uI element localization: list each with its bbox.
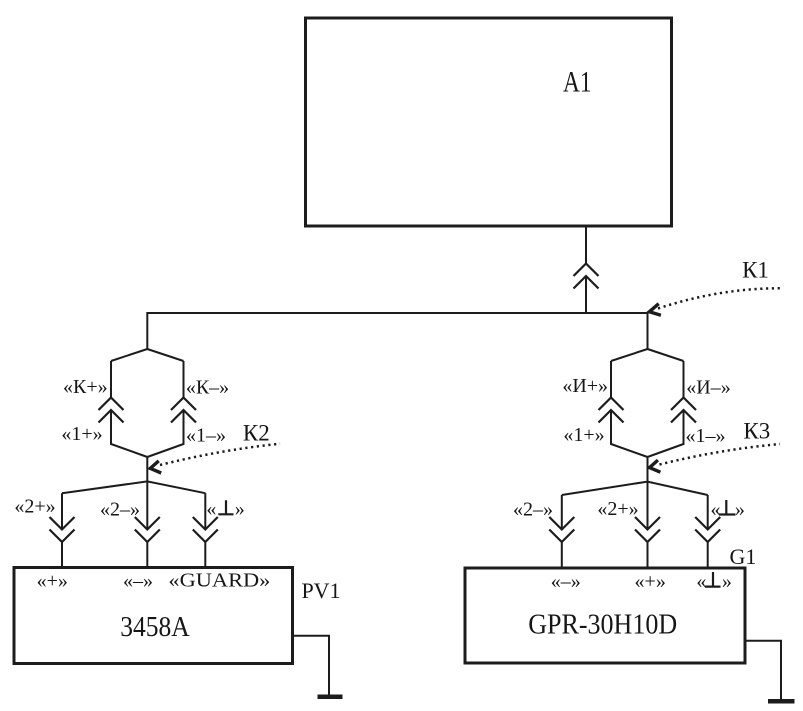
- svg-text:«+»: «+»: [37, 570, 68, 592]
- connector chevrons (cable K1 joint, upper half): [574, 264, 599, 277]
- connector chevrons right lens left side: [599, 398, 624, 423]
- wire left fan branch 3: [204, 493, 206, 529]
- svg-text:«GUARD»: «GUARD»: [168, 570, 270, 592]
- svg-text:«К–»: «К–»: [186, 377, 229, 399]
- wire left lens left upper segment: [110, 361, 112, 398]
- connector chevrons (cable K1 joint, lower half): [574, 276, 599, 289]
- svg-text:«2–»: «2–»: [513, 499, 553, 521]
- wire pin gnd to PV1: [204, 542, 206, 566]
- svg-text:«1–»: «1–»: [186, 425, 226, 447]
- label gnd right (tack symbol): [719, 500, 736, 515]
- instrument PV1 box (3458A): [14, 568, 293, 664]
- wire right fan branch 2: [647, 482, 649, 530]
- wire right lens right upper segment: [683, 361, 685, 398]
- connector chevrons left lens left side: [99, 398, 124, 423]
- connector chevrons branch 2- right: [549, 517, 574, 542]
- svg-text:«2+»: «2+»: [597, 498, 638, 520]
- connector chevrons branch 2+: [50, 517, 75, 542]
- wire left fan branch 1: [61, 493, 63, 529]
- wire right lens right lower segment: [648, 410, 684, 457]
- connector chevrons left lens right side: [171, 398, 196, 423]
- svg-text:«2+»: «2+»: [14, 496, 55, 518]
- wire PV1 to ground: [294, 636, 329, 695]
- wire right lens bottom stem: [647, 457, 649, 482]
- svg-text:«К+»: «К+»: [63, 376, 108, 398]
- svg-text:GPR-30H10D: GPR-30H10D: [528, 609, 677, 640]
- K1 pointer arrowhead: [649, 304, 661, 316]
- device A1 (box): [306, 18, 672, 226]
- svg-text:G1: G1: [730, 544, 757, 569]
- svg-text:«–»: «–»: [123, 570, 153, 592]
- K3 pointer dotted line: [660, 444, 781, 465]
- wire pin 2+ to PV1: [61, 542, 63, 566]
- wire G1 to ground: [747, 641, 782, 700]
- connector chevrons branch gnd: [193, 517, 218, 542]
- K2 pointer arrowhead: [150, 461, 161, 473]
- wire connector to bus: [585, 276, 587, 313]
- connector chevrons branch 2-: [135, 517, 160, 542]
- svg-text:«И–»: «И–»: [686, 377, 730, 399]
- connector chevrons right lens right side: [671, 398, 696, 423]
- svg-text:»: »: [235, 498, 245, 520]
- svg-text:PV1: PV1: [301, 578, 340, 603]
- svg-text:К2: К2: [243, 421, 270, 446]
- wire pin 2- to G1: [561, 542, 563, 567]
- wire left lens right lower segment: [147, 410, 183, 457]
- K1 pointer dotted line: [658, 288, 781, 308]
- svg-text:«: «: [711, 499, 721, 521]
- ground PV1: [318, 694, 343, 699]
- label gnd left (tack symbol): [218, 500, 233, 514]
- svg-text:К3: К3: [743, 419, 770, 444]
- wire right lens left lower segment: [611, 410, 648, 457]
- bus wire (horizontal with end drops): [147, 313, 647, 349]
- svg-text:«: «: [696, 570, 706, 592]
- svg-text:A1: A1: [563, 66, 592, 99]
- source G1 box (GPR-30H10D): [465, 568, 745, 663]
- wire left fan diagonals: [62, 481, 205, 493]
- wire left fan branch 2: [146, 481, 148, 529]
- svg-text:«1+»: «1+»: [61, 423, 102, 445]
- wire left lens right upper segment: [183, 361, 185, 398]
- svg-text:«: «: [206, 498, 216, 520]
- terminal label gnd right box (tack symbol): [705, 572, 721, 587]
- K2 pointer dotted line: [160, 444, 280, 465]
- wire left lens top diagonals: [111, 349, 184, 361]
- connector chevrons branch 2+ right: [635, 517, 660, 542]
- wire left lens bottom stem: [146, 457, 148, 481]
- svg-text:«2–»: «2–»: [100, 499, 140, 521]
- svg-text:«1+»: «1+»: [563, 424, 604, 446]
- svg-text:К1: К1: [742, 258, 769, 283]
- wire pin 2- to PV1: [146, 542, 148, 566]
- wire pin 2+ to G1: [647, 542, 649, 567]
- wire A1 bottom to connector K1: [585, 228, 587, 264]
- svg-text:»: »: [735, 499, 745, 521]
- wire right fan diagonals: [562, 482, 708, 495]
- wire right fan branch 3: [707, 495, 709, 530]
- wire pin gnd to G1: [707, 542, 709, 567]
- svg-text:«И+»: «И+»: [562, 375, 608, 397]
- wire right fan branch 1: [561, 495, 563, 530]
- wire left lens left lower segment: [111, 410, 147, 457]
- wire right lens left upper segment: [610, 361, 612, 398]
- svg-text:3458A: 3458A: [120, 612, 190, 643]
- K3 pointer arrowhead: [650, 460, 661, 472]
- svg-text:«+»: «+»: [635, 571, 666, 593]
- ground G1: [768, 699, 795, 704]
- connector chevrons branch gnd right: [695, 517, 720, 542]
- svg-text:»: »: [722, 570, 732, 592]
- svg-text:«–»: «–»: [551, 571, 581, 593]
- wire right lens top diagonals: [611, 349, 684, 361]
- svg-text:«1–»: «1–»: [686, 425, 726, 447]
